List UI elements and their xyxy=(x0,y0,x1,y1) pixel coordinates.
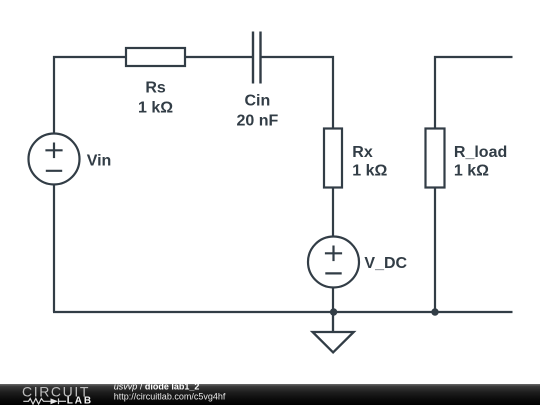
resistor R_load xyxy=(426,129,445,188)
ground xyxy=(313,312,354,352)
svg-text:Rx: Rx xyxy=(352,144,373,161)
svg-text:1 kΩ: 1 kΩ xyxy=(454,163,489,180)
label Rx 1 kOhm xyxy=(352,144,387,180)
capacitor Cin xyxy=(253,32,261,84)
label Rs 1 kOhm xyxy=(138,80,173,117)
wire xyxy=(185,56,252,58)
wire xyxy=(435,57,513,129)
svg-text:V_DC: V_DC xyxy=(364,255,407,272)
resistor Rx xyxy=(324,129,342,188)
wire xyxy=(262,57,334,129)
wire xyxy=(332,288,334,313)
svg-text:Rs: Rs xyxy=(145,80,166,97)
junction xyxy=(330,308,337,315)
svg-text:http://circuitlab.com/c5vg4hf: http://circuitlab.com/c5vg4hf xyxy=(114,391,226,401)
resistor Rs xyxy=(126,48,185,66)
wire xyxy=(53,185,55,313)
wire xyxy=(54,57,126,134)
wire xyxy=(53,311,513,313)
wire xyxy=(332,188,334,237)
svg-text:R_load: R_load xyxy=(454,144,507,161)
svg-text:1 kΩ: 1 kΩ xyxy=(138,99,173,116)
voltage source Vin xyxy=(29,134,80,185)
svg-text:20 nF: 20 nF xyxy=(237,112,279,129)
svg-text:usvvp / diode lab1_2: usvvp / diode lab1_2 xyxy=(114,382,200,392)
wire xyxy=(434,188,436,313)
footer bar xyxy=(0,384,540,405)
voltage source V_DC xyxy=(308,237,359,288)
footer text xyxy=(114,382,226,402)
CircuitLab logo xyxy=(22,383,93,405)
svg-text:Vin: Vin xyxy=(87,153,112,170)
svg-text:LAB: LAB xyxy=(67,396,93,405)
label Cin 20 nF xyxy=(237,93,279,130)
svg-text:1 kΩ: 1 kΩ xyxy=(352,163,387,180)
label R_load 1 kOhm xyxy=(454,144,507,180)
junction xyxy=(431,308,438,315)
svg-text:Cin: Cin xyxy=(245,93,271,110)
